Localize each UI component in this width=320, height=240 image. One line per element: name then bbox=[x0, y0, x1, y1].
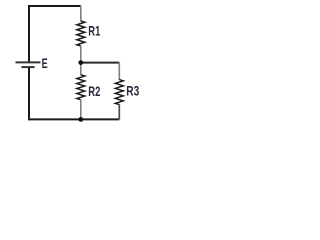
resistor R1 bbox=[77, 6, 85, 63]
svg-text:E: E bbox=[42, 55, 48, 71]
wire middle (junction to R3 top) bbox=[81, 62, 120, 64]
wire bottom (junction to R3 bottom) bbox=[81, 118, 120, 120]
svg-text:R1: R1 bbox=[88, 23, 100, 39]
svg-text:R3: R3 bbox=[126, 83, 139, 99]
wire top (battery + to R1 top) bbox=[29, 6, 81, 62]
wire left lower (battery - down to bottom) bbox=[29, 67, 81, 119]
battery E bbox=[16, 62, 41, 67]
resistor R2 bbox=[77, 63, 85, 120]
resistor R3 bbox=[115, 63, 123, 120]
node junction bottom (R2/bottom wire) bbox=[78, 117, 83, 122]
node junction top (R1/R2/middle wire) bbox=[78, 60, 83, 65]
svg-text:R2: R2 bbox=[88, 83, 100, 99]
